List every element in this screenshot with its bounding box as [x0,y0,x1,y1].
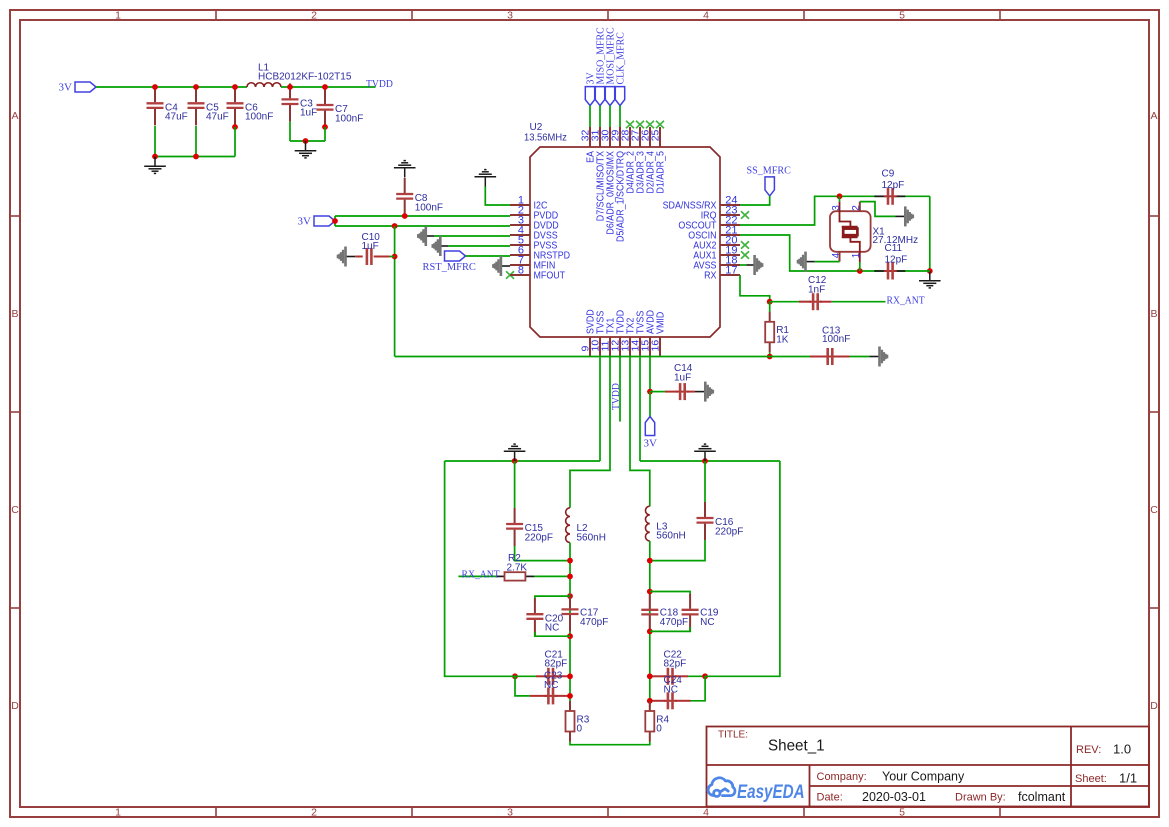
svg-text:1K: 1K [776,334,789,345]
U2 pin 18 AVSS [720,264,740,266]
wire VMID rail under chip [395,356,770,358]
U2 pin 26 D2/ADR_4 [649,127,651,147]
capacitor C8 [404,178,406,193]
capacitor C6 [234,87,236,102]
svg-text:2020-03-01: 2020-03-01 [862,790,926,804]
power flag 3V (below AVDD) [649,392,651,417]
EasyEDA logo [708,778,735,797]
svg-text:1.0: 1.0 [1113,742,1131,757]
U2 pin 8 MFOUT [510,274,530,276]
svg-text:100nF: 100nF [245,112,273,123]
capacitor C21 [515,675,536,677]
junction DVDD rail [392,223,398,229]
ground (earth) below C4 rail [144,157,166,174]
wire C13 to gnd dart [850,356,870,358]
svg-text:2: 2 [311,806,317,818]
ground dart at PVSS pin 5 [440,245,448,247]
junction L2/C15 [567,558,573,564]
wire 3V rail to L1 [96,86,247,88]
resistor R1 1K [769,302,771,312]
junction AVDD node [647,389,653,395]
svg-text:3V: 3V [59,82,73,94]
wire TVSS pin 14 down to right gnd rail [639,357,641,461]
junction C21 right [567,673,573,679]
junction C7 lead [322,124,328,130]
svg-text:A: A [11,110,18,122]
svg-text:100nF: 100nF [822,334,850,345]
wire PVSS pin 5 [448,245,510,247]
svg-text:560nH: 560nH [656,531,685,542]
U2 pin 6 NRSTPD [510,254,530,256]
svg-text:D1/ADR_5: D1/ADR_5 [656,151,667,194]
svg-text:RST_MFRC: RST_MFRC [423,261,476,273]
wire C4 to gnd rail [154,126,156,157]
junction C22 left [647,673,653,679]
wire C16 bottom to L3 line [650,540,705,561]
ground dart at crystal pin4 [806,261,815,263]
svg-text:3: 3 [507,9,513,21]
junction right gnd rail [702,458,708,464]
svg-text:Date:: Date: [817,792,843,804]
capacitor C19 (NC) [650,592,690,597]
U2 pin 9 SVDD [589,337,591,357]
wire OSCOUT pin 22 to crystal rail [740,196,930,225]
ground dart at AVSS pin 18 [740,264,746,266]
ground (earth) above C8 [394,161,416,178]
junction C8 on PVDD rail [402,213,408,219]
net flag RST_MFRC [445,251,466,261]
junction gnd rail C3C7 [303,138,309,144]
wire crystal pin2 to gnd [859,202,861,212]
svg-text:B: B [11,308,18,320]
U2 pin 10 TVSS [599,337,601,357]
wire C5 to gnd rail [195,126,197,157]
U2 pin 32 EA [589,127,591,147]
wire RST to NRSTPD pin 6 [466,255,511,257]
svg-text:A: A [1150,110,1157,122]
net flag MOSI_MFRC (top) [605,87,614,106]
no-connect X on pin [636,121,644,128]
wire RX pin 17 down to C12 node [740,275,770,302]
junction R2/L2 [567,574,573,580]
wire flag to pin [619,106,621,127]
svg-text:D: D [1150,700,1158,712]
svg-text:1: 1 [115,806,121,818]
U2 pin 24 SDA/NSS/RX [720,204,740,206]
wire flag to pin [599,106,601,127]
svg-text:1uF: 1uF [362,241,379,252]
net flag 3V (top) [585,87,594,106]
svg-text:13.56MHz: 13.56MHz [524,133,567,144]
junction C24 left [647,698,653,704]
svg-text:U2: U2 [530,122,543,133]
svg-text:Sheet_1: Sheet_1 [768,738,825,755]
U2 pin 7 MFIN [510,264,530,266]
wire C12 to RX_ANT [832,301,886,303]
svg-text:25: 25 [650,129,662,141]
junction gnd rail at C5 [193,154,199,160]
ground dart at DVSS pin 4 [426,235,434,237]
junction C4 top [152,84,158,90]
svg-text:0: 0 [656,724,662,735]
svg-text:8: 8 [518,265,524,277]
svg-text:TVDD: TVDD [366,78,393,90]
U2 pin 12 TVDD [619,337,621,357]
svg-text:12pF: 12pF [885,254,908,265]
svg-text:1uF: 1uF [300,108,317,119]
wire long left loop [445,461,515,676]
capacitor C4 [154,87,156,102]
U2 pin 28 D4/ADR_2 [629,127,631,147]
resistor R2 2.7K [458,575,496,577]
ground dart at C10 [346,256,356,258]
svg-text:TITLE:: TITLE: [718,730,748,741]
junction 3V flag tip [332,218,338,224]
svg-text:1nF: 1nF [808,284,825,295]
junction C5 top [193,84,199,90]
wire R1 bottom to VMID rail [769,352,771,356]
capacitor C16 [704,461,706,503]
svg-text:1uF: 1uF [674,373,691,384]
U2 pin 19 AUX1 [720,254,740,256]
ground (earth) above left rail [504,444,526,461]
svg-text:Drawn By:: Drawn By: [955,792,1006,804]
U2 pin 5 PVSS [510,244,530,246]
wire DVDD down to C10 and VMID rail [394,226,396,357]
wire gnd rail C3-C7 [290,140,325,142]
svg-text:RX: RX [704,271,717,282]
U2 pin 23 IRQ [720,214,740,216]
U2 pin 30 D6/ADR_0/MOSI/MX [609,127,611,147]
svg-text:C: C [11,504,19,516]
svg-text:C: C [1150,504,1158,516]
svg-text:NC: NC [545,623,559,634]
svg-text:470pF: 470pF [660,617,688,628]
svg-text:82pF: 82pF [664,659,687,670]
wire long right loop [705,461,780,676]
U2 pin 13 TX2 [629,337,631,357]
svg-text:100nF: 100nF [335,113,363,124]
inductor L2 [566,508,570,543]
svg-text:NC: NC [664,684,678,695]
svg-text:5: 5 [899,9,905,21]
svg-text:Company:: Company: [817,771,867,783]
U2 pin 14 TVSS [639,337,641,357]
crystal X1 internals [839,196,841,202]
capacitor C22 [650,675,666,677]
svg-text:560nH: 560nH [577,532,606,543]
no-connect X on pin [656,121,664,128]
wire OSCIN pin 21 to crystal bottom rail [740,235,930,271]
svg-text:17: 17 [725,265,737,277]
wire C7 to gnd rail [324,127,326,141]
no-connect X on pin [646,121,654,128]
svg-text:Your Company: Your Company [882,770,965,784]
ground (earth) above right rail [694,444,716,461]
junction C3 top [287,84,293,90]
net flag MISO_MFRC (top) [595,87,604,106]
svg-text:CLK_MFRC: CLK_MFRC [615,32,627,84]
svg-text:NC: NC [700,617,714,628]
svg-text:100nF: 100nF [415,202,443,213]
svg-text:220pF: 220pF [525,532,553,543]
net flag CLK_MFRC (top) [615,87,624,106]
svg-text:3: 3 [507,806,513,818]
U2 pin 11 TX1 [609,337,611,357]
inductor L3 [645,506,649,541]
svg-text:4: 4 [703,806,709,818]
wire C6 to gnd rail [234,127,236,157]
svg-text:1: 1 [115,9,121,21]
svg-text:D: D [11,700,19,712]
ground dart at MFIN pin 7 [501,265,510,267]
ground dart at C14 [695,391,705,393]
svg-text:82pF: 82pF [545,659,568,670]
wire L2 bottom [569,543,571,711]
junction L3/C16 [647,558,653,564]
ground (earth) below C3/C7 [295,141,317,158]
junction C17 bottom [567,633,573,639]
svg-text:RX_ANT: RX_ANT [462,568,500,580]
wire TX2 pin 13 jog to L3 [630,357,650,506]
no-connect X at IRQ pin 23 [741,211,749,218]
svg-text:C9: C9 [882,168,895,179]
wire crystal pin4 to gnd [839,252,841,262]
svg-text:TVDD: TVDD [610,383,622,410]
no-connect X at AUX1 pin 19 [741,251,749,258]
wire I2C pin 1 to gnd [485,187,510,206]
ground dart at C13 [869,356,879,358]
capacitor C13 [770,356,810,358]
junction crystal pin3 top [837,193,843,199]
U2 pin 31 D7/SCL/MISO/TX [599,127,601,147]
wire L1 to TVDD [281,86,376,88]
capacitor C5 [195,87,197,102]
ground dart at crystal pin2 [895,215,905,217]
junction OSCIN rail right [927,268,933,274]
U2 pin 3 DVDD [510,224,530,226]
title block [707,727,1150,807]
svg-text:3: 3 [831,205,842,211]
wire gnd rail C4-C6 [155,156,235,158]
U2 pin 2 PVDD [510,214,530,216]
wire DVSS pin 4 [434,235,510,237]
svg-text:0: 0 [577,724,583,735]
svg-text:47uF: 47uF [206,112,229,123]
no-connect X at AUX2 pin 20 [741,241,749,248]
wire DVDD rail (pin 3) [335,225,510,227]
wire flag to pin [609,106,611,127]
svg-text:SS_MFRC: SS_MFRC [747,165,791,177]
svg-text:RX_ANT: RX_ANT [887,295,925,307]
svg-text:47uF: 47uF [165,112,188,123]
capacitor C10 [355,256,362,258]
junction C21 row left [512,673,518,679]
wire right gnd rail [640,460,780,462]
svg-text:4: 4 [703,9,709,21]
svg-text:MFOUT: MFOUT [534,271,566,282]
svg-text:REV:: REV: [1076,744,1101,756]
svg-text:HCB2012KF-102T15: HCB2012KF-102T15 [258,72,352,83]
junction C23 right [567,693,573,699]
wire L3 bottom [649,541,651,707]
svg-text:470pF: 470pF [580,617,608,628]
svg-text:2: 2 [311,9,317,21]
capacitor C12 [770,301,809,303]
junction C22 right [702,673,708,679]
svg-text:12pF: 12pF [882,180,905,191]
junction C18 bottom [647,629,653,635]
crystal X1 body [830,211,871,252]
svg-text:Sheet:: Sheet: [1075,773,1107,785]
wire flag to pin [589,106,591,127]
power flag 3V (top-left) [75,82,96,92]
svg-text:3V: 3V [644,437,658,449]
U2 pin 22 OSCOUT [720,224,740,226]
capacitor C20 (NC) [535,596,570,601]
U2 pin 27 D3/ADR_3 [639,127,641,147]
net flag SS_MFRC [765,177,774,196]
wire TVSS pin 10 down to left gnd rail [599,357,601,461]
wire C15 bottom to L2 line [515,546,570,561]
U2 pin 17 RX [720,274,740,276]
capacitor C3 [289,83,291,98]
U2 pin 4 DVSS [510,234,530,236]
junction C10 right [392,254,398,260]
capacitor C7 [324,89,326,104]
wire C9 right down to OSCIN rail [929,196,931,271]
capacitor C14 [650,391,665,393]
capacitor C11 [874,270,885,272]
net label TVDD (pin 12 wire) [619,357,621,422]
wire 3V fork vertical [334,216,336,226]
wire left gnd rail [445,460,600,462]
power flag 3V (mid-left) [314,216,335,226]
U2 pin 20 AUX2 [720,244,740,246]
wire R3 bottom bridge [570,742,650,745]
IC U2 13.56MHz body [530,147,720,337]
svg-text:1: 1 [851,252,862,258]
svg-text:EasyEDA: EasyEDA [737,780,805,802]
junction C6 top [232,84,238,90]
wire TX1 pin 11 jog to L2 [570,357,610,508]
junction RX/C12/R1 node [767,299,773,305]
U2 pin 1 I2C [510,204,530,206]
U2 pin 15 AVDD [649,337,651,357]
wire PVDD rail (pin 2) [335,215,510,217]
svg-text:27.12MHz: 27.12MHz [873,235,919,246]
svg-text:3V: 3V [298,216,312,228]
svg-text:B: B [1150,308,1157,320]
svg-text:5: 5 [899,806,905,818]
svg-text:VMID: VMID [656,312,667,334]
svg-text:16: 16 [650,340,662,352]
capacitor C24 (NC) [691,676,706,701]
U2 pin 16 VMID [659,337,661,357]
junction C7 top [322,84,328,90]
ground (earth) above pin 1 [475,170,497,187]
junction gnd rail at C4 [152,154,158,160]
wire C3 to gnd rail [289,121,291,141]
svg-text:220pF: 220pF [715,526,743,537]
wire R2 to L2 line [534,575,570,577]
resistor R3 0 [569,701,571,711]
wire SS flag to SDA pin 24 [740,196,770,205]
resistor R4 0 [649,701,651,711]
capacitor C23 (NC) [515,676,530,696]
wire AVDD pin 15 down [649,357,651,392]
junction R1 on VMID rail [767,354,773,360]
junction C6 lead [232,124,238,130]
junction C18 top [647,589,653,595]
inductor L1 [247,83,281,87]
U2 pin 21 OSCIN [720,234,740,236]
svg-text:2.7K: 2.7K [507,562,528,573]
capacitor C15 [514,461,516,509]
U2 pin 25 D1/ADR_5 [659,127,661,147]
no-connect X on pin [626,121,634,128]
ground (earth) below C9/C11 rail [919,271,941,288]
svg-text:fcolmant: fcolmant [1018,790,1066,804]
svg-text:NC: NC [544,680,558,691]
capacitor C9 [874,195,885,197]
svg-text:1/1: 1/1 [1119,771,1137,786]
U2 pin 29 D5/ADR_1/SCK/DTRQ [619,127,621,147]
junction crystal pin1 bottom [857,268,863,274]
no-connect X at MFOUT pin 8 [506,271,514,278]
junction left gnd rail [512,458,518,464]
junction C17 top [567,593,573,599]
